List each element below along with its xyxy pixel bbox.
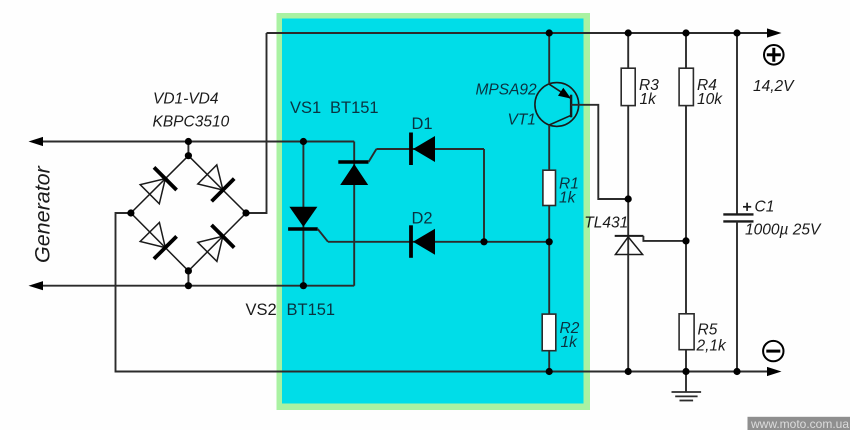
wire: generator top AC line [42, 141, 354, 143]
C1 polarity plus sign [743, 203, 751, 211]
negative output terminal symbol [763, 341, 783, 361]
wire: bridge left vertex to bottom negative rail [116, 213, 769, 372]
svg-text:10k: 10k [697, 91, 723, 108]
svg-text:BT151: BT151 [287, 301, 336, 319]
regulator module highlighted box (green outer border) [277, 13, 591, 410]
transistor VT1 base bar [570, 95, 572, 118]
node: D2 branch to R1/R2 column [546, 238, 553, 245]
svg-text:VT1: VT1 [508, 111, 536, 128]
wire: bridge top vertex stub [187, 142, 189, 156]
arrow: generator top line [29, 137, 44, 146]
diode VD3 (bridge) [140, 223, 176, 259]
thyristor VS2 (triangle) [289, 207, 317, 227]
transistor VT1 emitter diagonal with arrow [549, 84, 571, 98]
wire: D1 branch (VS1 gate to D1 junction) [376, 148, 484, 150]
svg-text:1k: 1k [561, 334, 579, 351]
wire: bridge bottom vertex stub [187, 271, 189, 286]
svg-text:MPSA92: MPSA92 [476, 81, 538, 98]
resistor R3 [621, 68, 635, 105]
wire: top rail to C1 [736, 33, 738, 214]
diode D2 (triangle) [413, 229, 435, 255]
positive output terminal symbol [764, 45, 784, 65]
TL431 U1 (cathode bar) [615, 235, 644, 237]
svg-text:R5: R5 [698, 322, 718, 339]
svg-text:VS2: VS2 [246, 301, 277, 319]
svg-text:1000µ 25V: 1000µ 25V [745, 222, 822, 239]
svg-text:2,1k: 2,1k [696, 337, 728, 354]
arrow: top rail output [767, 28, 782, 37]
wire: R4 bottom through ref junction to R5 [685, 106, 687, 314]
wire: bridge diamond outline [131, 156, 246, 271]
resistor R4 [679, 68, 693, 105]
svg-text:1k: 1k [559, 190, 577, 207]
svg-text:TL431: TL431 [584, 215, 628, 232]
wire: VT1 collector down to R1 [548, 125, 550, 170]
regulator module cyan fill [282, 19, 584, 404]
svg-text:D2: D2 [412, 210, 433, 228]
thyristor VS2 (cathode bar) [288, 227, 318, 231]
svg-text:KBPC3510: KBPC3510 [153, 114, 230, 131]
thyristor VS1 (cathode bar) [338, 160, 368, 164]
node: VT1 base / R3 / TL431 junction [625, 195, 632, 202]
wire: TL431 anode to negative rail [627, 255, 629, 372]
wire: top rail to R4 [685, 33, 687, 68]
svg-text:VD1-VD4: VD1-VD4 [153, 91, 219, 108]
arrow: bottom rail output [767, 367, 782, 376]
svg-text:14,2V: 14,2V [753, 78, 795, 95]
wire: R1 bottom to D2 branch junction [548, 206, 550, 242]
diode VD1 (bridge) [140, 167, 176, 203]
wire: VS2 gate diagonal [318, 229, 328, 242]
wire: VS2 column [302, 142, 304, 286]
wire: R2 bottom to negative rail [548, 351, 550, 372]
transistor VT1 collector diagonal [549, 115, 571, 125]
wire: VT1 base to TL431 junction [571, 105, 628, 199]
wire: D1 branch down to D2 branch [483, 149, 485, 242]
TL431 U1 (triangle) [615, 237, 642, 255]
node: generator bottom line junctions [185, 282, 307, 289]
wire: D2 junction down to R2 [548, 242, 550, 314]
diode VD4 (bridge) [198, 225, 234, 261]
svg-text:BT151: BT151 [330, 99, 379, 117]
diode D2 (cathode bar) [409, 225, 413, 257]
capacitor C1 (plates) [723, 214, 753, 221]
node: bridge vertices [127, 152, 249, 274]
arrow: generator bottom line [29, 281, 44, 290]
wire: VT1 emitter to top rail [548, 33, 550, 84]
ground symbol [672, 372, 702, 401]
diode VD2 (bridge) [198, 165, 234, 201]
wire: R5 bottom to negative rail [685, 350, 687, 372]
diode D1 (cathode bar) [409, 133, 413, 166]
node: D1/D2 branch junction [480, 238, 487, 245]
wire: bridge right vertex up to top rail [246, 33, 267, 213]
wire: top rail to R3 [627, 33, 629, 68]
wire: VS1 gate diagonal [369, 149, 377, 162]
node: bottom rail junctions [546, 368, 741, 375]
watermark www.moto.com.ua [748, 417, 850, 430]
resistor R5 [679, 314, 694, 350]
diode D1 (triangle) [413, 136, 435, 162]
transistor VT1 (circle) [535, 83, 579, 127]
thyristor VS1 (triangle) [340, 164, 368, 185]
svg-text:www.moto.com.ua: www.moto.com.ua [750, 417, 849, 430]
wire: generator bottom AC line [42, 285, 354, 287]
resistor R1 [543, 170, 556, 205]
node: TL431 ref / R4 / R5 junction [682, 237, 689, 244]
wire: top positive rail [267, 32, 769, 34]
svg-text:C1: C1 [755, 199, 775, 216]
svg-text:VS1: VS1 [290, 99, 321, 117]
svg-text:Generator: Generator [31, 165, 55, 263]
wire: C1 bottom to negative rail [736, 221, 738, 371]
svg-text:D1: D1 [412, 115, 433, 133]
wire: R3 bottom through base junction to TL431 [627, 106, 629, 255]
wire: D2 branch (VS2 gate to R1/R2 column) [328, 241, 549, 243]
wire: TL431 reference to R4/R5 divider [643, 236, 686, 241]
svg-text:1k: 1k [640, 91, 658, 108]
node: top rail junctions [546, 29, 741, 36]
node: generator top line junctions [185, 138, 307, 145]
wire: VS1 column (gen top line down to gen bottom line) [353, 142, 355, 286]
resistor R2 [542, 314, 556, 351]
